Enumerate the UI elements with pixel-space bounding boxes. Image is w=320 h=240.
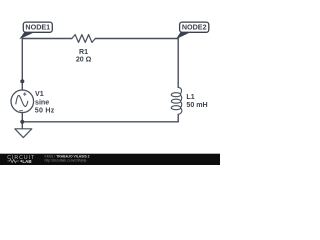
svg-text:NODE1: NODE1	[25, 23, 50, 32]
svg-text:50 Hz: 50 Hz	[35, 107, 55, 115]
svg-text:LAB: LAB	[22, 159, 32, 164]
svg-text:20 Ω: 20 Ω	[76, 56, 92, 64]
svg-text:sine: sine	[35, 98, 49, 106]
svg-text:50 mH: 50 mH	[186, 101, 207, 109]
svg-text:NODE2: NODE2	[182, 23, 207, 32]
svg-text:V1: V1	[35, 90, 44, 98]
svg-text:htlp://circuitlab.com/c/9fq4ja: htlp://circuitlab.com/c/9fq4ja	[45, 158, 87, 162]
